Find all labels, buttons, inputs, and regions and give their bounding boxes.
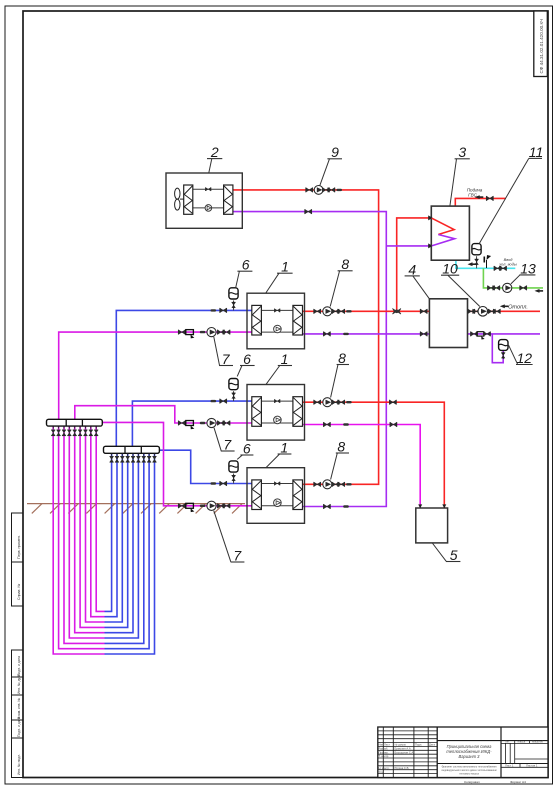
unit 1 row 1 evaporator: [252, 305, 262, 335]
left margin upper box: [12, 513, 24, 606]
svg-text:Справ. №: Справ. №: [17, 584, 21, 600]
drain on brine supply row 3: [211, 482, 217, 484]
valve on brine return row 1: [179, 330, 186, 335]
tank 3 inlet arrow top: [428, 215, 432, 220]
svg-text:Листов 1: Листов 1: [526, 764, 538, 768]
unit 1 row 2 condenser: [293, 397, 303, 427]
control valve on brine return row 3: [186, 503, 195, 512]
label 1 row1 leader: [266, 273, 279, 293]
unit 1 row 3 internal piping: [261, 484, 293, 506]
wire: brine return row2 (magenta): [75, 406, 252, 423]
drain on brine return row 2: [200, 422, 206, 424]
buffer tank 4: [429, 299, 467, 348]
manifold valve R8: [147, 456, 151, 462]
make-up flow arrow: [535, 289, 544, 293]
DHW tank 3: [431, 206, 469, 260]
valve before pump 8 row 2: [314, 400, 321, 405]
valve on return row 2: [324, 422, 331, 427]
label 11 leader: [479, 158, 529, 244]
svg-text:СФ 44.31.02.01.420.00.КЧ: СФ 44.31.02.01.420.00.КЧ: [539, 19, 544, 74]
svg-text:7: 7: [233, 547, 242, 563]
label 8 row3 leader: [331, 453, 338, 480]
unit 2 fan: [175, 188, 184, 210]
left margin lower box: [12, 650, 24, 778]
svg-text:Инв. № дубл.: Инв. № дубл.: [17, 673, 21, 694]
drain on brine supply row 1: [211, 309, 217, 311]
valve after pump 7 row 2: [218, 421, 225, 426]
vessel 11 fitting: [475, 259, 479, 266]
valve after pump 7 row 3: [218, 504, 225, 509]
unit 1 row 1 internal valve: [275, 309, 280, 313]
valve on brine return row 2: [179, 421, 186, 426]
svg-text:Масштаб: Масштаб: [532, 740, 544, 744]
svg-text:8: 8: [338, 350, 346, 366]
svg-text:12: 12: [517, 350, 533, 366]
control valve on brine return row 2: [186, 421, 195, 430]
drain on brine supply row 2: [211, 400, 217, 402]
unit 1 row 1 condenser: [293, 305, 303, 335]
svg-text:1: 1: [281, 259, 289, 275]
valve after pump 8 row 1: [332, 309, 339, 314]
expansion vessel 6 row 1: [229, 288, 238, 299]
valve2 after pump 8 row 3: [338, 482, 345, 487]
valve2 on heating return: [484, 332, 491, 337]
drain on return row 1: [343, 333, 349, 335]
svg-text:Перв. примен.: Перв. примен.: [17, 535, 21, 559]
valve2 after pump 8 row 2: [338, 400, 345, 405]
valve on make-up: [488, 286, 495, 291]
accumulator unit 5: [416, 508, 448, 543]
label 6 row3 leader: [237, 455, 242, 459]
svg-text:Ермолин А.А.: Ермолин А.А.: [395, 747, 412, 751]
pump 7 row 3: [207, 501, 216, 510]
label 7 row3 leader: [214, 511, 231, 562]
tank 3 inlet arrow bottom: [428, 243, 432, 248]
unit 2 internal valve: [206, 187, 211, 191]
svg-text:8: 8: [341, 256, 349, 272]
label 9 leader: [320, 159, 330, 186]
svg-text:Дата: Дата: [429, 743, 435, 747]
control valve on brine return row 1: [186, 330, 195, 339]
manifold valve R7: [142, 456, 146, 462]
svg-text:1: 1: [281, 351, 289, 367]
title block texts: [379, 740, 544, 784]
manifold valve L7: [62, 430, 66, 436]
wire: heating return (violet): [468, 333, 541, 335]
manifold valve L9: [51, 430, 55, 436]
vessel 12 fitting: [501, 352, 505, 359]
label 2 leader: [209, 159, 212, 173]
label 5 leader: [432, 543, 446, 561]
svg-text:Вариант 3: Вариант 3: [459, 754, 481, 759]
label 7 row1 leader: [214, 337, 220, 365]
vessel 6 connection row 3: [233, 474, 235, 484]
valve after tank 4: [468, 309, 475, 314]
valve on return row 1: [324, 332, 331, 337]
valve on brine supply row 3: [220, 481, 227, 486]
manifold valve L6: [67, 430, 71, 436]
drain on hot supply row 1: [346, 310, 352, 312]
valve on unit 2 return: [305, 209, 312, 214]
expansion vessel 6 row 2: [229, 379, 238, 390]
wire: heating supply from tank 4 (red): [468, 310, 541, 312]
pump 7 row 2: [207, 418, 216, 427]
label 6 row1 leader: [236, 271, 240, 287]
manifold valve L2: [89, 430, 93, 436]
valve on heating return: [471, 332, 478, 337]
svg-text:Формат А4: Формат А4: [510, 780, 526, 784]
svg-text:8: 8: [337, 438, 345, 454]
svg-text:2: 2: [210, 144, 219, 160]
pump 7 row 1: [207, 328, 216, 337]
unit 2 evaporator: [184, 185, 193, 214]
svg-text:7: 7: [222, 351, 231, 367]
valve2 after pump 7 row 1: [223, 330, 230, 335]
drain on return row 2: [343, 423, 349, 425]
valve2 after pump 8 row 1: [338, 309, 345, 314]
drain on brine return row 3: [200, 505, 206, 507]
valve on brine supply row 1: [220, 308, 227, 313]
svg-text:Подп. и дата: Подп. и дата: [17, 656, 21, 676]
manifold valve L3: [83, 430, 87, 436]
unit 1 row 3 evaporator: [252, 480, 262, 510]
unit 2 condenser: [224, 185, 233, 214]
manifold valve R5: [131, 456, 135, 462]
wire: brine supply row3 (blue): [159, 450, 251, 483]
wire: brine return row3 (magenta): [103, 422, 252, 505]
svg-text:10: 10: [442, 261, 458, 277]
drain after pump 9: [336, 189, 342, 191]
expansion vessel 6 row 3: [229, 461, 238, 472]
drain on brine return row 1: [200, 331, 206, 333]
manifold valve R3: [120, 456, 124, 462]
manifold valve L5: [73, 430, 77, 436]
cold water flow arrow: [468, 262, 477, 266]
valve before pump 8 row 3: [314, 482, 321, 487]
pump 8 row 2: [323, 398, 332, 407]
svg-text:Н. контр.: Н. контр.: [379, 766, 390, 770]
vessel 6 connection row 1: [233, 300, 235, 310]
expansion vessel 12: [499, 340, 508, 351]
pump 10: [478, 307, 488, 317]
label 3 leader: [450, 159, 457, 206]
pump 8 row 1: [323, 307, 332, 316]
svg-text:Копировал: Копировал: [464, 780, 480, 784]
wire: brine return row1 (magenta): [59, 332, 252, 419]
unit 1 row 2 internal piping: [261, 401, 293, 423]
svg-text:Подп.: Подп.: [415, 743, 422, 747]
drain on hot supply row 3: [346, 483, 352, 485]
label 6 row2 leader: [237, 366, 242, 377]
manifold valve R9: [153, 456, 157, 462]
unit 1 row 1 internal piping: [261, 310, 293, 332]
pump 13: [503, 283, 512, 292]
drain on hot supply row 2: [346, 401, 352, 403]
wire: row1 return (violet): [303, 333, 430, 335]
unit 1 row 2 evaporator: [252, 397, 262, 427]
wire: condenser return trunk + row3 (violet): [233, 212, 386, 507]
valve after pump 13: [520, 286, 527, 291]
manifold valve R1: [110, 456, 114, 462]
wire: cold water line (cyan): [456, 260, 515, 268]
heating flow arrow: [500, 304, 509, 308]
valve after pump 9: [323, 188, 330, 193]
valve row2 supply east: [390, 400, 397, 405]
wire: make-up water line (green): [483, 268, 543, 288]
svg-text:1: 1: [280, 439, 288, 455]
svg-text:13: 13: [520, 260, 536, 276]
manifold valve L1: [94, 430, 98, 436]
title block: [378, 727, 548, 778]
DHW flow arrow: [475, 195, 484, 199]
ground surface line: [27, 504, 245, 514]
svg-text:5: 5: [450, 547, 458, 563]
manifold valve L8: [57, 430, 61, 436]
svg-text:теплового насоса: теплового насоса: [459, 772, 479, 775]
svg-text:11: 11: [529, 144, 544, 160]
label 13 leader: [511, 275, 520, 284]
svg-text:Подп. и дата: Подп. и дата: [17, 717, 21, 737]
valve2 on make-up: [493, 286, 500, 291]
svg-text:Бородулин С.А.: Бородулин С.А.: [395, 750, 415, 754]
svg-text:6: 6: [243, 351, 251, 367]
manifold valve R4: [126, 456, 130, 462]
wire: row2 return to unit 5 (magenta): [303, 425, 421, 508]
valve on cold water: [494, 266, 501, 271]
svg-text:Т. контр.: Т. контр.: [379, 754, 390, 758]
vessel 6 fitting row 1: [232, 302, 236, 309]
valve2 after pump 7 row 3: [223, 504, 230, 509]
wire: row1 hot supply to tank 4 (red): [303, 310, 430, 312]
unit 1 row 3 condenser: [293, 480, 303, 510]
valve before pump 9: [306, 188, 313, 193]
label 7 row2 leader: [214, 428, 221, 451]
heat pump unit 1 (row 1) box: [247, 293, 305, 349]
tank 3 coil (violet): [432, 235, 455, 246]
unit 1 row 2 internal pump: [274, 416, 282, 424]
manifold valve R2: [115, 456, 119, 462]
pump 9: [314, 186, 323, 195]
svg-text:6: 6: [243, 440, 251, 456]
label 10 leader: [448, 275, 480, 306]
svg-text:7: 7: [223, 436, 232, 452]
drain on return row 3: [343, 505, 349, 507]
valve after pump 8 row 2: [332, 400, 339, 405]
wire: row2 hot supply to unit 5 (red): [303, 402, 445, 507]
label 12 leader: [509, 345, 518, 364]
manifold R drop stubs: [112, 453, 155, 456]
ground loop supply pipes (magenta): [53, 426, 104, 654]
unit 5 inlet arrows: [418, 504, 446, 508]
svg-text:Масса: Масса: [518, 740, 526, 744]
manifold L drop stubs: [53, 426, 96, 429]
valve on brine supply row 2: [220, 399, 227, 404]
svg-text:ГВС: ГВС: [468, 192, 477, 197]
top right stamp box: [534, 11, 548, 77]
label 8 row2 leader: [331, 365, 338, 398]
manifold (supply collector): [47, 419, 103, 426]
wire: condenser supply trunk + row3 (red): [233, 190, 379, 484]
label 8 row1 leader: [330, 271, 339, 307]
expansion vessel 11: [472, 244, 481, 255]
pump 8 row 3: [323, 480, 332, 489]
ground loop return pipes (blue): [105, 453, 155, 654]
valve on return row 3: [324, 504, 331, 509]
wire: brine supply row1 (blue): [116, 310, 252, 446]
svg-text:№ докум.: № докум.: [395, 744, 407, 747]
tank 3 coil (red): [431, 218, 454, 235]
svg-text:9: 9: [331, 144, 339, 160]
svg-text:Разраб.: Разраб.: [379, 747, 389, 751]
heat pump unit 1 (row 2) box: [247, 385, 305, 441]
control valve heating return: [477, 332, 485, 340]
valve before tank 4 supply: [420, 309, 427, 314]
svg-text:Юрина С.В.: Юрина С.В.: [395, 766, 410, 770]
vessel 6 connection row 2: [233, 391, 235, 401]
manifold valve L4: [78, 430, 82, 436]
manifold (return collector): [104, 446, 160, 453]
vessel 11 connection: [476, 256, 478, 268]
heat pump unit 1 (row 3) box: [247, 468, 305, 524]
svg-text:Лист: Лист: [384, 743, 391, 747]
unit 1 row 3 internal valve: [275, 482, 280, 486]
heat pump unit 2 box: [166, 173, 242, 228]
valve before pump 8 row 1: [314, 309, 321, 314]
valve before tank 4 return: [420, 332, 427, 337]
valve row2 return east: [390, 422, 397, 427]
valve2 after pump 10: [494, 309, 501, 314]
unit 2 internal pump: [205, 205, 212, 212]
manifold valve R6: [136, 456, 140, 462]
wire: expansion vessel 12 connection (violet): [492, 334, 503, 363]
svg-text:4: 4: [408, 261, 416, 277]
vessel 6 fitting row 3: [232, 475, 236, 482]
svg-text:Лист 1: Лист 1: [505, 764, 514, 768]
svg-text:хол. воды: хол. воды: [498, 262, 517, 267]
valve2 after pump 9: [328, 188, 335, 193]
unit 2 internal piping: [193, 189, 224, 208]
unit 1 row 2 internal valve: [275, 399, 280, 403]
safety valve group: [484, 255, 491, 268]
valve after pump 7 row 1: [218, 330, 225, 335]
valve2 after pump 7 row 2: [223, 421, 230, 426]
valve after pump 8 row 3: [332, 482, 339, 487]
wire: brine supply row2 (blue): [132, 401, 251, 446]
svg-text:Взам. инв. №: Взам. инв. №: [17, 698, 21, 719]
svg-text:3: 3: [458, 144, 466, 160]
unit 1 row 3 internal pump: [274, 499, 282, 507]
label 1 row2 leader: [266, 366, 280, 385]
label 4 leader: [413, 276, 429, 298]
svg-text:Инв. № подл.: Инв. № подл.: [17, 754, 21, 775]
junction row1/tank3 branch: [393, 309, 401, 315]
svg-text:Отопл.: Отопл.: [508, 305, 528, 311]
svg-text:Утв.: Утв.: [379, 770, 384, 774]
wire: DHW supply line (red): [455, 198, 506, 206]
svg-text:6: 6: [242, 257, 250, 273]
svg-text:Провер.: Провер.: [379, 750, 389, 754]
valve after pump 10: [489, 309, 496, 314]
svg-text:Лит.: Лит.: [505, 740, 510, 744]
wire: branch to tank 3 (red): [397, 218, 432, 311]
valve2 on cold water: [500, 266, 507, 271]
unit 1 row 1 internal pump: [274, 325, 282, 333]
valve2 after tank 4: [473, 309, 480, 314]
svg-text:Изм: Изм: [379, 743, 384, 747]
vessel 6 fitting row 2: [232, 392, 236, 399]
valve on brine return row 3: [179, 504, 186, 509]
valve on DHW supply: [487, 196, 494, 201]
wire: branch to tank 3 (violet): [386, 245, 431, 247]
label 1 row3 leader: [266, 454, 280, 468]
